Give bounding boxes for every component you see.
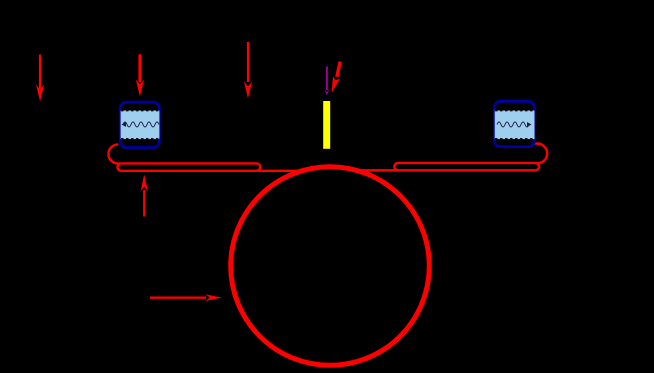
arrow 1 down [36,55,44,102]
wire right coil top line and left u-turn [394,163,534,170]
arrow up at left coil [141,174,148,216]
arrow 2 down [136,54,144,96]
arrow right at loop [150,294,222,301]
wire left coil top line and right u-turn [121,163,260,170]
phase modulator yellow bar [323,101,330,149]
arrow 3 down [244,42,252,99]
wire left coil curl [108,144,120,163]
wire right coil bottom line from loop and right u-turn [354,163,539,170]
right coil box [494,101,534,146]
purple arrow down at modulator [324,67,329,96]
left coil box [120,102,159,147]
red slanted arrow at modulator [332,61,342,93]
big fiber loop circle [231,167,430,366]
wire right coil curl [534,144,547,164]
wire left coil left u-turn and bottom line to loop [117,163,303,170]
